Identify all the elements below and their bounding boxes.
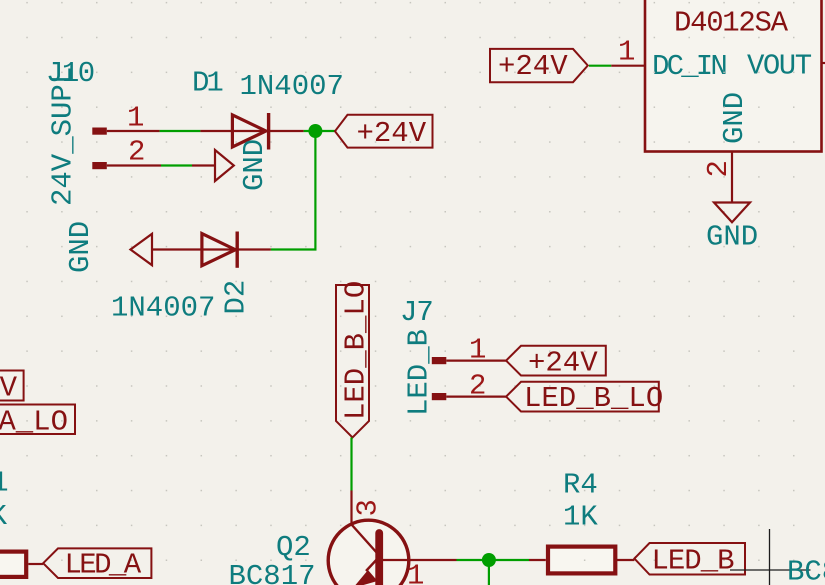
net label LED_B_LO (J7.2) [506,382,663,415]
net label LED_B [634,543,745,578]
svg-text:1: 1 [127,102,144,135]
J10 pin 2 stub [92,162,107,169]
svg-text:GND: GND [706,221,758,254]
svg-text:1: 1 [618,36,635,69]
wire Q2 collector to R4 [457,559,530,561]
resistor R4 body [548,547,615,574]
power label +24V (top) [335,115,433,150]
diode D1 cathode pin [269,130,304,132]
GND power symbol (down arrow) [714,203,750,223]
svg-text:BC817: BC817 [787,556,825,585]
wire LED_B_LO label down to Q2 base [350,438,352,491]
svg-text:2: 2 [469,370,486,403]
GND power symbol (left arrow, D2 anode) [131,234,238,265]
svg-text:2: 2 [128,136,145,169]
wire junction down (clipped) [488,560,490,585]
DC_IN pin 1 line [611,65,645,67]
sheet frame vertical line [769,529,771,585]
GND pin 2 line down [731,152,733,203]
Q2 base diagonal [352,525,378,554]
diode D1 body 1N4007 [232,113,268,150]
hierarchical label LED_B_LO (vertical) [336,281,373,438]
svg-text:+24V: +24V [498,50,568,83]
VOUT pin line (clipped right) [822,62,825,64]
Q2 collector pin 1 line [383,559,457,561]
transistor Q2 circle [328,520,409,585]
svg-text:1: 1 [469,334,486,367]
svg-text:D1: D1 [192,67,222,100]
junction node +24V [308,124,322,138]
J10 pin 2 line [107,164,161,166]
Q2 base bar [375,533,383,585]
J7 pin 1 stub [432,357,447,364]
svg-text:2: 2 [702,160,735,177]
svg-text:1N4007: 1N4007 [240,70,344,103]
GND power symbol (J10 pin2, arrow right) [192,150,234,181]
svg-text:+24V: +24V [528,347,598,380]
power label +24V (at DC_IN) [490,49,588,83]
net label LED_A [43,548,151,581]
partial net label LED_A_LO (left edge) [0,405,75,439]
resistor R4 right pin [616,559,634,561]
svg-text:3: 3 [351,499,384,516]
wire D1 cathode to +24V junction [304,130,335,132]
svg-text:+24V: +24V [357,117,427,150]
J7 pin 1 line [446,360,506,362]
svg-text:R1: R1 [0,467,9,500]
svg-text:+24V: +24V [0,372,18,405]
svg-text:LED_B: LED_B [403,329,436,416]
svg-text:1K: 1K [563,501,598,534]
Q2 base pin line [350,491,352,525]
J10 pin 1 line [107,130,160,132]
J7 pin 2 stub [432,393,447,400]
svg-text:1K: 1K [0,500,8,533]
svg-text:LED_B_LO: LED_B_LO [340,281,373,420]
partial resistor body (left edge) [0,552,26,577]
power label +24V (J7.1) [506,346,606,380]
Q2 emitter with arrow [366,556,380,571]
junction node at Q2/R4 [482,553,496,567]
svg-text:LED_B_LO: LED_B_LO [524,382,663,415]
diode D1 pin line (anode) [200,130,268,132]
svg-text:R4: R4 [563,469,598,502]
wire J10.1 to D1 [160,130,201,132]
diode D2 body 1N4007 [202,232,237,268]
resistor R4 left pin [529,559,546,561]
J7 pin 2 line [446,396,506,398]
wire J10.2 to GND arrow [161,164,192,166]
svg-text:BC817: BC817 [229,560,316,585]
wire +24V to DC_IN pin [589,65,611,67]
resistor pin to LED_A [28,563,43,565]
svg-text:J7: J7 [400,296,433,329]
diode D2 cathode pin [237,248,271,250]
svg-text:LED_B: LED_B [652,545,735,578]
sheet frame horizontal line [730,569,811,571]
svg-text:D2: D2 [220,280,253,315]
svg-text:1: 1 [407,560,424,585]
DC-DC converter D4012SA body [645,0,822,152]
svg-text:1N4007: 1N4007 [111,292,215,325]
wire D2 to junction riser [271,248,317,250]
svg-text:24V_SUPL: 24V_SUPL [47,67,80,206]
wire junction down [314,131,316,250]
grid dots inside R4 body [551,549,613,571]
J10 pin 1 stub [92,128,107,135]
svg-text:GND: GND [238,139,271,191]
svg-text:LED_A_LO: LED_A_LO [0,406,68,439]
grid dots inside U box [647,0,819,149]
svg-text:LED_A: LED_A [65,549,142,582]
svg-text:GND: GND [64,221,97,273]
partial power label +24V (left edge) [0,371,24,405]
